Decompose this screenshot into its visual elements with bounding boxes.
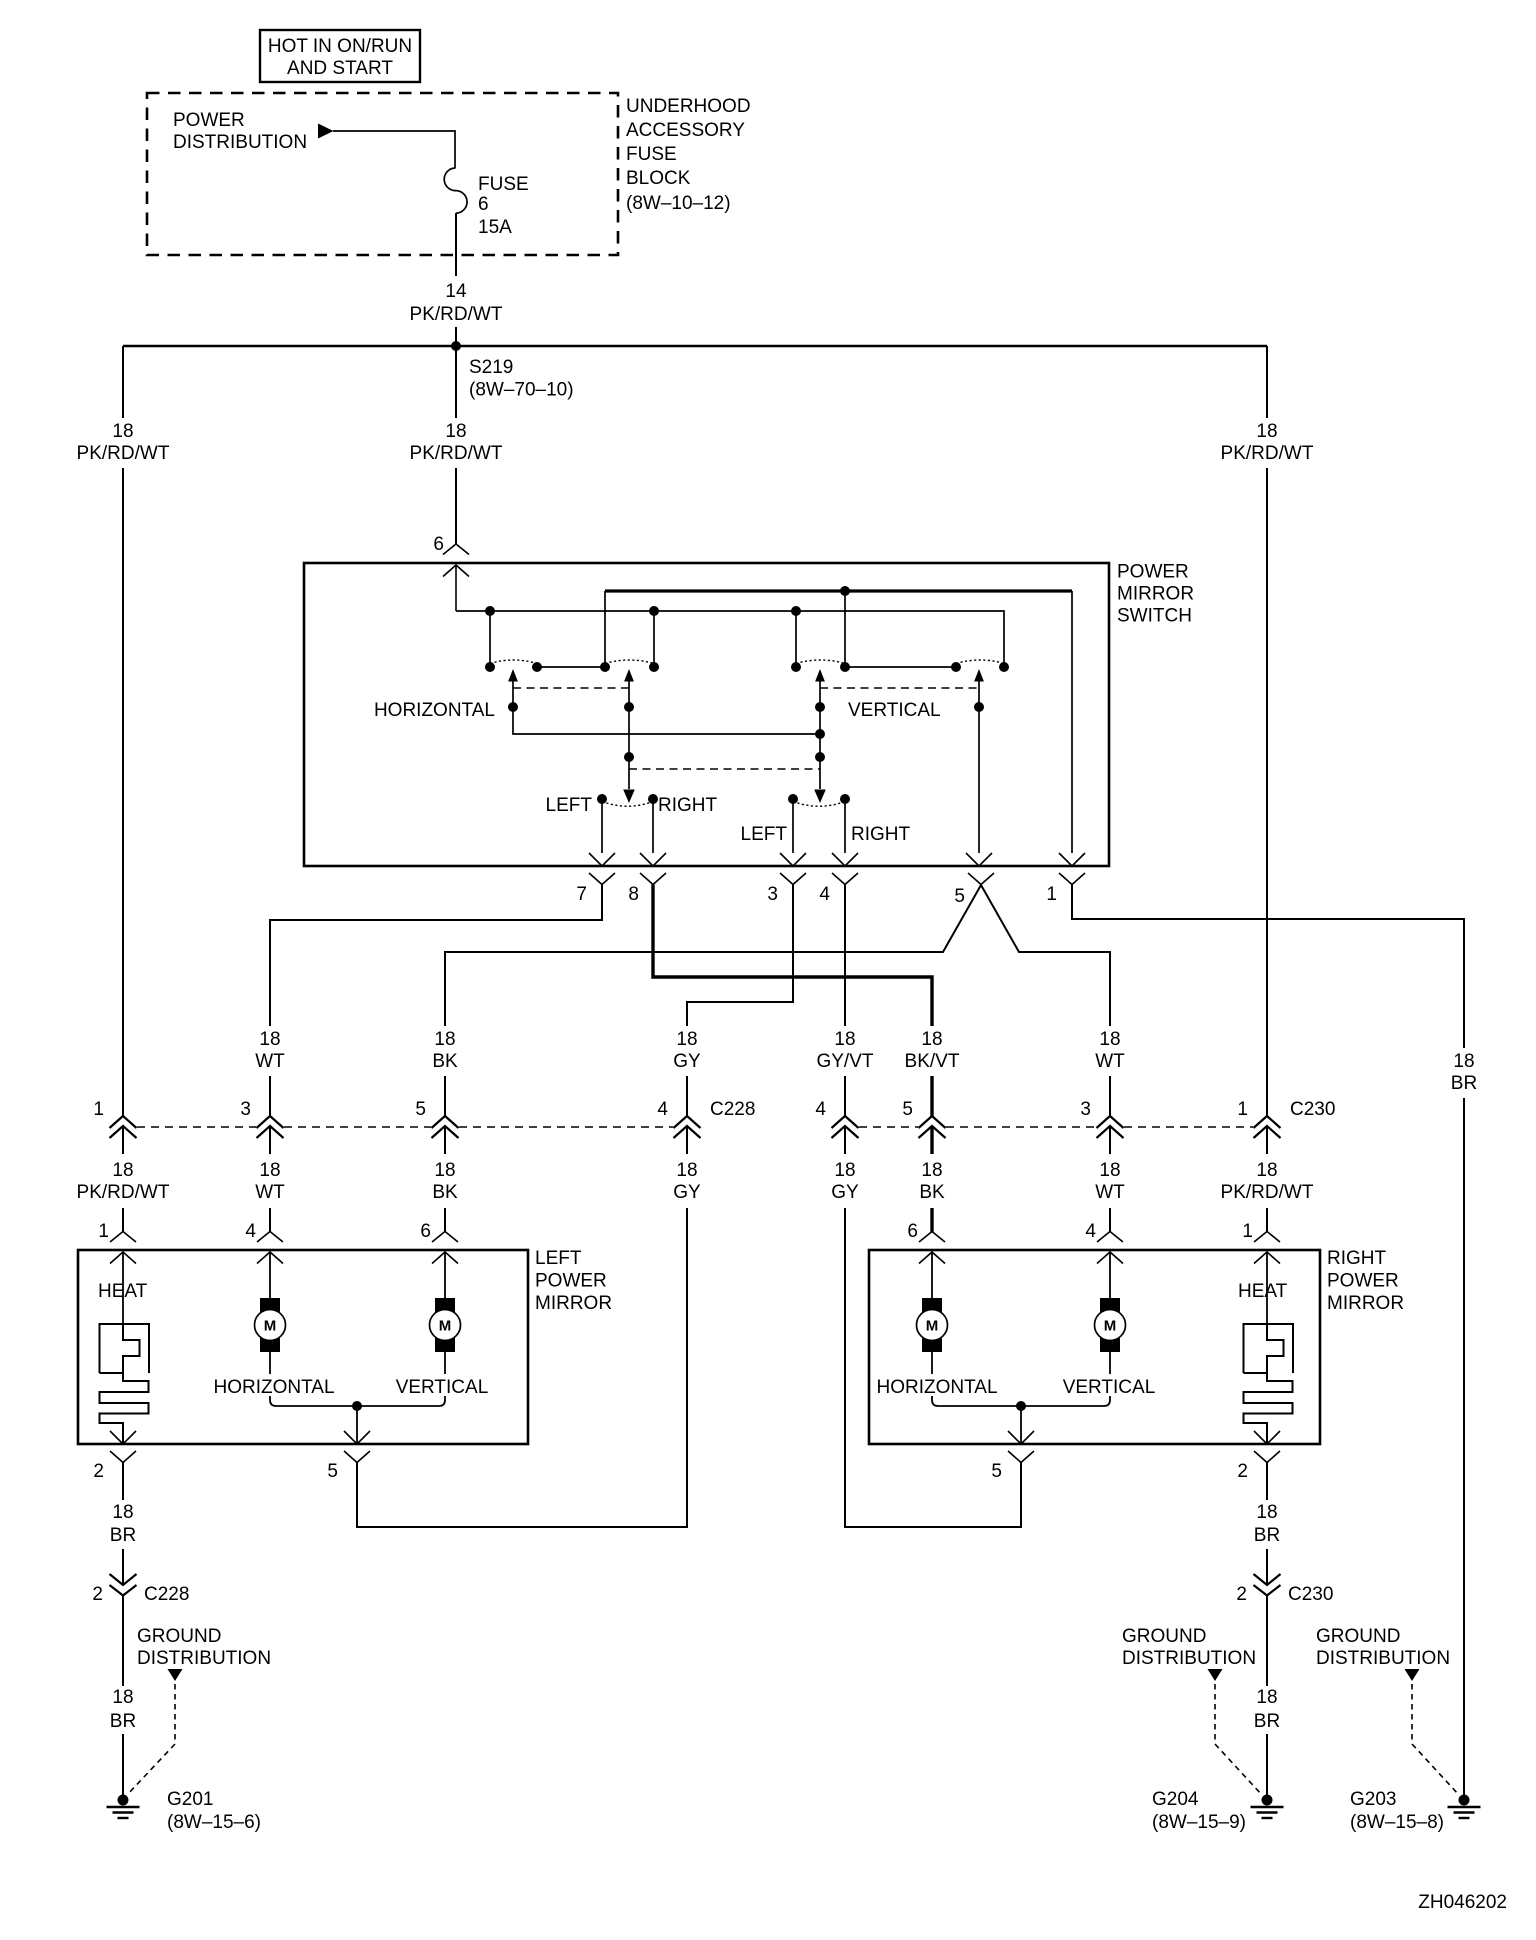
wire C230-2 to ground G204 (18 BR) bbox=[1266, 1596, 1268, 1796]
svg-text:1: 1 bbox=[1242, 1221, 1253, 1242]
svg-text:6: 6 bbox=[420, 1221, 431, 1242]
ground G201 symbol bbox=[118, 1795, 129, 1806]
switch exit arrows at box edge bbox=[589, 853, 1085, 866]
wire C228-4 to left mirror pin 5 (18 GY) bbox=[357, 1126, 687, 1527]
svg-text:WT: WT bbox=[255, 1182, 285, 1203]
svg-text:BR: BR bbox=[1451, 1073, 1477, 1094]
svg-text:GY: GY bbox=[831, 1182, 859, 1203]
svg-text:3: 3 bbox=[767, 884, 778, 905]
svg-text:GROUND: GROUND bbox=[1122, 1626, 1206, 1647]
connector C230 pin 2 bbox=[1236, 1574, 1333, 1605]
wire fuse to splice S219 bbox=[455, 213, 457, 346]
svg-text:18: 18 bbox=[112, 1160, 133, 1181]
switch pin 5 connector (crossover) bbox=[954, 873, 994, 907]
wire C228-3 to left mirror pin 4 (18 WT) bbox=[269, 1126, 271, 1232]
ground distribution dashed lead (right) bbox=[1412, 1684, 1459, 1795]
svg-text:18: 18 bbox=[1256, 1687, 1277, 1708]
wire left branch 18 PK/RD/WT upper bbox=[122, 346, 124, 1116]
svg-text:M: M bbox=[926, 1318, 939, 1335]
svg-text:AND START: AND START bbox=[287, 58, 393, 79]
svg-text:GROUND: GROUND bbox=[1316, 1626, 1400, 1647]
wire pin 1 to ground G203 (18 BR) bbox=[1072, 885, 1464, 1796]
svg-text:1: 1 bbox=[1237, 1099, 1248, 1120]
svg-text:RIGHT: RIGHT bbox=[658, 795, 718, 816]
svg-text:MIRROR: MIRROR bbox=[1117, 584, 1194, 605]
svg-text:(8W–15–9): (8W–15–9) bbox=[1152, 1812, 1246, 1833]
svg-text:4: 4 bbox=[815, 1099, 826, 1120]
svg-text:18: 18 bbox=[921, 1160, 942, 1181]
svg-text:BR: BR bbox=[1254, 1711, 1280, 1732]
wire bus drops to fixed contacts bbox=[490, 591, 845, 667]
ground G204 symbol bbox=[1262, 1795, 1273, 1806]
svg-text:18: 18 bbox=[434, 1029, 455, 1050]
svg-text:LEFT: LEFT bbox=[546, 795, 593, 816]
svg-text:UNDERHOOD: UNDERHOOD bbox=[626, 96, 751, 117]
wire label 18 GY bbox=[673, 1029, 701, 1072]
wire label 18 BR (right lower) bbox=[1254, 1687, 1280, 1732]
wire pin 5 left leg to C228-5 (18 BK) bbox=[445, 885, 981, 1116]
svg-text:1: 1 bbox=[1046, 884, 1057, 905]
svg-text:SWITCH: SWITCH bbox=[1117, 606, 1192, 627]
svg-text:WT: WT bbox=[1095, 1182, 1125, 1203]
wire label 18 BR (left upper) bbox=[110, 1502, 136, 1546]
wire C230-1 to right mirror pin 1 (18 PK/RD/WT) bbox=[1266, 1126, 1268, 1232]
wire right mirror pin 2 to C230-2 (18 BR) bbox=[1266, 1463, 1268, 1586]
wiper arrows up bbox=[508, 669, 984, 682]
wire pin 4 to C230-4 (18 GY/VT) bbox=[844, 885, 846, 1117]
svg-text:7: 7 bbox=[576, 884, 587, 905]
junction dots on feed bus bbox=[485, 606, 801, 616]
wire label 18 BK (below C230-5) bbox=[919, 1160, 945, 1203]
wire left mirror pin 2 to C228-2 (18 BR) bbox=[122, 1463, 124, 1586]
svg-text:18: 18 bbox=[921, 1029, 942, 1050]
wire label 18 WT bbox=[255, 1029, 285, 1072]
connector C228 pin 3 bbox=[240, 1099, 283, 1138]
wire C230-4 to right mirror pin 5 (18 GY) bbox=[845, 1126, 1021, 1527]
svg-text:POWER: POWER bbox=[1117, 562, 1189, 583]
svg-text:1: 1 bbox=[98, 1221, 109, 1242]
label G204 (8W-15-9) bbox=[1152, 1789, 1246, 1833]
svg-text:18: 18 bbox=[112, 421, 133, 442]
svg-text:FUSE: FUSE bbox=[478, 174, 529, 195]
ground G203 symbol bbox=[1459, 1795, 1470, 1806]
svg-text:MIRROR: MIRROR bbox=[535, 1293, 612, 1314]
svg-text:HORIZONTAL: HORIZONTAL bbox=[374, 700, 495, 721]
wire label 18 GY/VT bbox=[816, 1029, 873, 1072]
svg-text:18: 18 bbox=[834, 1160, 855, 1181]
svg-text:18: 18 bbox=[1256, 421, 1277, 442]
wire pin 8 to C230-5 (18 BK/VT, bold) bbox=[653, 885, 932, 1117]
splice S219 bus wire bbox=[123, 345, 1267, 348]
label G203 (8W-15-8) bbox=[1350, 1789, 1444, 1833]
svg-text:18: 18 bbox=[1453, 1051, 1474, 1072]
right mirror pin 4 connector bbox=[1085, 1221, 1123, 1264]
svg-text:2: 2 bbox=[93, 1461, 104, 1482]
svg-text:LEFT: LEFT bbox=[741, 824, 788, 845]
wire left mirror pin 6 to motor bbox=[444, 1252, 446, 1298]
switch feed bus wire bbox=[456, 611, 1004, 667]
ground distribution dashed lead (middle) bbox=[1215, 1684, 1262, 1795]
junction dot motor common left bbox=[352, 1401, 362, 1411]
svg-text:HORIZONTAL: HORIZONTAL bbox=[876, 1377, 997, 1398]
svg-text:VERTICAL: VERTICAL bbox=[396, 1377, 489, 1398]
right mirror pin 1 connector bbox=[1242, 1221, 1280, 1264]
wire label 18 BR (right upper) bbox=[1254, 1502, 1280, 1546]
fuse label FUSE 6 15A bbox=[478, 174, 529, 238]
ground distribution dashed lead (left) bbox=[127, 1684, 175, 1795]
wire C228-2 to ground G201 (18 BR) bbox=[122, 1596, 124, 1796]
svg-text:PK/RD/WT: PK/RD/WT bbox=[1221, 1182, 1314, 1203]
svg-text:PK/RD/WT: PK/RD/WT bbox=[77, 443, 170, 464]
wiper junction dots bbox=[508, 702, 984, 762]
svg-text:18: 18 bbox=[1099, 1029, 1120, 1050]
svg-text:18: 18 bbox=[676, 1029, 697, 1050]
wire pin 5 right leg to C230-3 (18 WT) bbox=[981, 885, 1110, 1116]
svg-text:WT: WT bbox=[255, 1051, 285, 1072]
wire label 18 PK/RD/WT (center branch) bbox=[410, 421, 503, 464]
label POWER DISTRIBUTION bbox=[173, 110, 307, 153]
svg-text:6: 6 bbox=[433, 534, 444, 555]
svg-text:BR: BR bbox=[110, 1711, 136, 1732]
left mirror pin 4 connector bbox=[245, 1221, 283, 1264]
switch common bus wire (bold) to pin 1 bbox=[605, 591, 1072, 853]
wire label 18 GY (below C230-4) bbox=[831, 1160, 859, 1203]
wire label 18 PK/RD/WT (right branch) bbox=[1221, 421, 1314, 464]
svg-text:GROUND: GROUND bbox=[137, 1626, 221, 1647]
junction dot on common bus bbox=[840, 586, 850, 596]
wire pin 3 to C228-4 (18 GY) bbox=[687, 885, 793, 1117]
svg-text:1: 1 bbox=[93, 1099, 104, 1120]
label RIGHT POWER MIRROR bbox=[1327, 1248, 1404, 1314]
svg-text:DISTRIBUTION: DISTRIBUTION bbox=[173, 132, 307, 153]
svg-text:PK/RD/WT: PK/RD/WT bbox=[77, 1182, 170, 1203]
wire right branch 18 PK/RD/WT bbox=[1266, 346, 1268, 1116]
heater element right mirror bbox=[1244, 1252, 1294, 1444]
svg-text:C228: C228 bbox=[144, 1584, 189, 1605]
connector C230 pin 1 and label bbox=[1237, 1099, 1335, 1138]
svg-text:18: 18 bbox=[1256, 1502, 1277, 1523]
svg-text:(8W–10–12): (8W–10–12) bbox=[626, 193, 731, 214]
left mirror pin 6 connector bbox=[420, 1221, 458, 1264]
wire center branch 18 PK/RD/WT bbox=[455, 346, 457, 544]
wire label 18 BR (far right) bbox=[1451, 1051, 1477, 1094]
wire arrow to fuse bbox=[333, 131, 455, 168]
svg-text:5: 5 bbox=[902, 1099, 913, 1120]
svg-text:BK: BK bbox=[919, 1182, 945, 1203]
svg-text:HORIZONTAL: HORIZONTAL bbox=[213, 1377, 334, 1398]
power distribution arrow bbox=[318, 124, 334, 139]
right power mirror box bbox=[869, 1250, 1320, 1444]
svg-text:GY: GY bbox=[673, 1051, 701, 1072]
svg-text:HOT IN ON/RUN: HOT IN ON/RUN bbox=[268, 36, 412, 57]
svg-text:18: 18 bbox=[834, 1029, 855, 1050]
svg-text:2: 2 bbox=[1237, 1461, 1248, 1482]
ground distribution arrow (middle) bbox=[1208, 1669, 1223, 1681]
wiper stem vertical-right to pin 5 bbox=[978, 681, 980, 853]
wire label 18 GY (below C228-4) bbox=[673, 1160, 701, 1203]
left mirror pin 2 connector bbox=[93, 1451, 136, 1482]
connector C230 pin 3 bbox=[1080, 1099, 1123, 1138]
svg-text:S219: S219 bbox=[469, 357, 513, 378]
switch exit wires to pins bbox=[602, 799, 845, 853]
label GROUND DISTRIBUTION (middle) bbox=[1122, 1626, 1256, 1669]
wire C230-5 to right mirror pin 6 (18 BK, bold) bbox=[930, 1126, 933, 1232]
left mirror exit arrows bbox=[110, 1431, 370, 1444]
contact arcs upper (dashed) bbox=[490, 660, 1004, 664]
label GROUND DISTRIBUTION (right) bbox=[1316, 1626, 1450, 1669]
connector C228 dashed gang line bbox=[137, 1126, 673, 1128]
svg-text:DISTRIBUTION: DISTRIBUTION bbox=[137, 1648, 271, 1669]
right mirror pin 5 connector bbox=[991, 1451, 1034, 1527]
motor common wire right mirror bbox=[932, 1352, 1110, 1444]
svg-text:DISTRIBUTION: DISTRIBUTION bbox=[1316, 1648, 1450, 1669]
power mirror switch box bbox=[304, 563, 1109, 866]
svg-text:M: M bbox=[1104, 1318, 1117, 1335]
svg-text:18: 18 bbox=[676, 1160, 697, 1181]
wire pin 7 to C228-3 (18 WT) bbox=[270, 885, 602, 1117]
svg-text:8: 8 bbox=[628, 884, 639, 905]
wire left mirror pin 4 to motor bbox=[269, 1252, 271, 1298]
fixed contact link wires bbox=[537, 666, 956, 668]
left mirror pin 1 connector bbox=[98, 1221, 136, 1264]
svg-text:GY: GY bbox=[673, 1182, 701, 1203]
svg-text:POWER: POWER bbox=[1327, 1271, 1399, 1292]
svg-text:FUSE: FUSE bbox=[626, 144, 677, 165]
svg-text:6: 6 bbox=[907, 1221, 918, 1242]
svg-text:G203: G203 bbox=[1350, 1789, 1396, 1810]
wire label 18 PK/RD/WT (below C230-1) bbox=[1221, 1160, 1314, 1203]
svg-text:POWER: POWER bbox=[173, 110, 245, 131]
svg-text:DISTRIBUTION: DISTRIBUTION bbox=[1122, 1648, 1256, 1669]
motor vertical right bbox=[1095, 1298, 1126, 1352]
selector contact arcs lower (dashed) bbox=[602, 802, 845, 807]
svg-text:RIGHT: RIGHT bbox=[1327, 1248, 1387, 1269]
svg-text:VERTICAL: VERTICAL bbox=[848, 700, 941, 721]
svg-text:(8W–15–8): (8W–15–8) bbox=[1350, 1812, 1444, 1833]
svg-text:BK/VT: BK/VT bbox=[905, 1051, 960, 1072]
svg-text:POWER: POWER bbox=[535, 1271, 607, 1292]
svg-text:PK/RD/WT: PK/RD/WT bbox=[410, 304, 503, 325]
connector C230 dashed gang line bbox=[859, 1126, 1253, 1128]
wiper stem horizontal-left bbox=[513, 681, 820, 734]
wire C228-1 to left mirror pin 1 (18 PK/RD/WT) bbox=[122, 1126, 124, 1232]
wire right mirror pin 4 to motor bbox=[1109, 1252, 1111, 1298]
label LEFT POWER MIRROR bbox=[535, 1248, 612, 1314]
svg-text:6: 6 bbox=[478, 194, 489, 215]
label POWER MIRROR SWITCH bbox=[1117, 562, 1194, 627]
svg-text:(8W–15–6): (8W–15–6) bbox=[167, 1812, 261, 1833]
switch pin 7 connector bbox=[576, 873, 615, 905]
svg-text:M: M bbox=[439, 1318, 452, 1335]
switch pin 1 connector bbox=[1046, 873, 1085, 905]
svg-text:C230: C230 bbox=[1288, 1584, 1333, 1605]
svg-text:M: M bbox=[264, 1318, 277, 1335]
svg-text:18: 18 bbox=[445, 421, 466, 442]
left power mirror box bbox=[78, 1250, 528, 1444]
svg-text:18: 18 bbox=[259, 1029, 280, 1050]
connector C230 pin 5 bbox=[902, 1099, 945, 1138]
fixed contact dots upper bbox=[485, 662, 1009, 672]
ground distribution arrow (right) bbox=[1405, 1669, 1420, 1681]
left mirror pin 5 connector bbox=[327, 1451, 370, 1527]
svg-text:ACCESSORY: ACCESSORY bbox=[626, 120, 745, 141]
svg-text:5: 5 bbox=[954, 886, 965, 907]
svg-text:RIGHT: RIGHT bbox=[851, 824, 911, 845]
connector pin 6 of power mirror switch bbox=[433, 534, 469, 555]
svg-text:4: 4 bbox=[657, 1099, 668, 1120]
wire label 18 WT (right) bbox=[1095, 1029, 1125, 1072]
motor common wire left mirror bbox=[270, 1352, 445, 1444]
wire label 14 PK/RD/WT bbox=[410, 281, 503, 325]
svg-text:3: 3 bbox=[240, 1099, 251, 1120]
svg-text:18: 18 bbox=[434, 1160, 455, 1181]
svg-text:ZH046202: ZH046202 bbox=[1418, 1892, 1507, 1913]
svg-text:BK: BK bbox=[432, 1182, 458, 1203]
label GROUND DISTRIBUTION (left) bbox=[137, 1626, 271, 1669]
heater element left mirror bbox=[100, 1252, 150, 1444]
fuse 6 15A symbol bbox=[444, 168, 467, 213]
selector arrows down bbox=[623, 790, 826, 804]
motor vertical left bbox=[430, 1298, 461, 1352]
svg-text:5: 5 bbox=[415, 1099, 426, 1120]
wire label 18 WT (below C228-3) bbox=[255, 1160, 285, 1203]
svg-text:HEAT: HEAT bbox=[1238, 1281, 1288, 1302]
connector C228 pin 4 and label bbox=[657, 1099, 755, 1138]
svg-text:GY/VT: GY/VT bbox=[816, 1051, 873, 1072]
svg-text:LEFT: LEFT bbox=[535, 1248, 582, 1269]
junction S219 bbox=[451, 341, 461, 351]
wire label 18 WT (below C230-3) bbox=[1095, 1160, 1125, 1203]
wire C228-5 to left mirror pin 6 (18 BK) bbox=[444, 1126, 446, 1232]
motor horizontal left bbox=[255, 1298, 286, 1352]
svg-text:G204: G204 bbox=[1152, 1789, 1199, 1810]
svg-text:5: 5 bbox=[991, 1461, 1002, 1482]
connector C228 pin 5 bbox=[415, 1099, 458, 1138]
svg-text:18: 18 bbox=[112, 1502, 133, 1523]
right mirror exit arrows bbox=[1008, 1431, 1280, 1444]
svg-text:BK: BK bbox=[432, 1051, 458, 1072]
svg-text:BLOCK: BLOCK bbox=[626, 168, 691, 189]
svg-text:14: 14 bbox=[445, 281, 467, 302]
switch pin 4 connector bbox=[819, 873, 858, 905]
connector C228 pin 2 bbox=[92, 1574, 189, 1605]
wire C230-3 to right mirror pin 4 (18 WT) bbox=[1109, 1126, 1111, 1232]
connector C228 pin 1 bbox=[93, 1099, 136, 1138]
svg-text:18: 18 bbox=[1256, 1160, 1277, 1181]
svg-text:VERTICAL: VERTICAL bbox=[1063, 1377, 1156, 1398]
right mirror pin 2 connector bbox=[1237, 1451, 1280, 1482]
svg-text:WT: WT bbox=[1095, 1051, 1125, 1072]
svg-text:4: 4 bbox=[819, 884, 830, 905]
wiper stem vertical-left bbox=[819, 681, 821, 789]
label box HOT IN ON/RUN AND START bbox=[260, 30, 420, 82]
label G201 (8W-15-6) bbox=[167, 1789, 261, 1833]
junction dot motor common right bbox=[1016, 1401, 1026, 1411]
wire right mirror pin 6 to motor bbox=[931, 1252, 933, 1298]
svg-text:PK/RD/WT: PK/RD/WT bbox=[1221, 443, 1314, 464]
wire label 18 BR (left lower) bbox=[110, 1687, 136, 1732]
wire label 18 BK/VT bbox=[905, 1029, 960, 1072]
svg-text:3: 3 bbox=[1080, 1099, 1091, 1120]
svg-text:2: 2 bbox=[92, 1584, 103, 1605]
gang link dashed upper bbox=[513, 687, 979, 689]
svg-text:18: 18 bbox=[259, 1160, 280, 1181]
svg-text:BR: BR bbox=[110, 1525, 136, 1546]
svg-text:(8W–70–10): (8W–70–10) bbox=[469, 380, 574, 401]
ground distribution arrow (left) bbox=[168, 1669, 183, 1681]
wire label 18 PK/RD/WT (left branch) bbox=[77, 421, 170, 464]
motor horizontal right bbox=[917, 1298, 948, 1352]
svg-text:PK/RD/WT: PK/RD/WT bbox=[410, 443, 503, 464]
svg-text:4: 4 bbox=[245, 1221, 256, 1242]
svg-text:4: 4 bbox=[1085, 1221, 1096, 1242]
selector contact dots lower bbox=[597, 794, 850, 804]
underhood accessory fuse block boundary (dashed) bbox=[147, 93, 618, 255]
svg-text:C228: C228 bbox=[710, 1099, 755, 1120]
svg-text:2: 2 bbox=[1236, 1584, 1247, 1605]
svg-text:G201: G201 bbox=[167, 1789, 213, 1810]
switch entry arrow pin 6 bbox=[443, 565, 469, 611]
switch pin 3 connector bbox=[767, 873, 806, 905]
svg-text:BR: BR bbox=[1254, 1525, 1280, 1546]
connector C230 pin 4 bbox=[815, 1099, 858, 1138]
svg-text:18: 18 bbox=[112, 1687, 133, 1708]
wire label 18 BK (below C228-5) bbox=[432, 1160, 458, 1203]
svg-text:MIRROR: MIRROR bbox=[1327, 1293, 1404, 1314]
wire label 18 PK/RD/WT (below C228-1) bbox=[77, 1160, 170, 1203]
gang link dashed lower bbox=[629, 768, 820, 770]
svg-text:18: 18 bbox=[1099, 1160, 1120, 1181]
wiper stem horizontal-right bbox=[628, 681, 630, 789]
svg-text:5: 5 bbox=[327, 1461, 338, 1482]
svg-text:15A: 15A bbox=[478, 217, 512, 238]
switch pin 8 connector bbox=[628, 873, 666, 905]
right mirror pin 6 connector bbox=[907, 1221, 945, 1264]
label S219 (8W-70-10) bbox=[469, 357, 574, 401]
wire label 18 BK bbox=[432, 1029, 458, 1072]
svg-text:C230: C230 bbox=[1290, 1099, 1335, 1120]
label UNDERHOOD ACCESSORY FUSE BLOCK (8W-10-12) bbox=[626, 96, 751, 214]
